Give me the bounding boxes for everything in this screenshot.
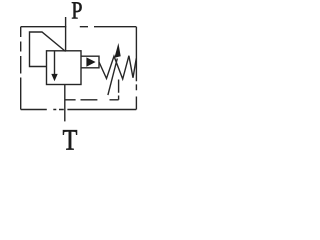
enclosure dashed box left edge <box>20 27 22 110</box>
pilot actuator box <box>81 56 99 68</box>
wire P supply line <box>65 17 67 52</box>
valve body square <box>47 51 82 85</box>
port label P <box>72 2 82 18</box>
adjustment arrow head <box>114 43 120 58</box>
drain pilot line (dashed) <box>65 80 119 100</box>
wire T return line <box>64 85 66 122</box>
enclosure right edge (solid) <box>135 27 137 110</box>
spring <box>99 56 136 79</box>
flow arrow shaft <box>54 51 56 76</box>
enclosure dashed box top edge <box>21 26 137 28</box>
pilot line loop <box>30 32 66 67</box>
flow arrow head <box>51 74 57 81</box>
adjustment arrow shaft <box>108 59 117 96</box>
port label T <box>63 130 77 149</box>
pilot actuator filled triangle <box>86 57 95 66</box>
enclosure dashed box bottom edge <box>21 109 137 111</box>
